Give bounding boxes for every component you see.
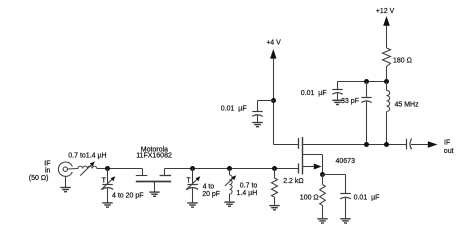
ground (inductor L2) xyxy=(224,202,234,206)
svg-text:T: T xyxy=(186,177,191,184)
node (junction dot at inductor L2) xyxy=(227,166,232,171)
svg-text:IF: IF xyxy=(444,139,450,146)
capacitor C6 33 pF xyxy=(361,82,371,145)
crystal filter FL1 Motorola 11FX16082 xyxy=(136,169,171,193)
svg-text:T: T xyxy=(102,177,107,184)
svg-text:11FX16082: 11FX16082 xyxy=(136,153,172,160)
trimmer capacitor C2 4 to 20 pF xyxy=(186,169,200,203)
+4 V supply arrow xyxy=(270,49,276,145)
label Motorola 11FX16082 xyxy=(136,147,172,160)
label 0.7 to1.4 uH xyxy=(68,153,106,160)
svg-text:0.7 to1.4 µH: 0.7 to1.4 µH xyxy=(68,153,106,160)
svg-text:45 MHz: 45 MHz xyxy=(395,102,420,109)
ground (trimmer C1) xyxy=(102,203,112,207)
ground (capacitor C5) xyxy=(332,100,342,104)
MOSFET Q1 40673 (dual-gate) xyxy=(299,137,323,175)
variable inductor L2 0.7 to 1.4 uH (shunt) xyxy=(225,169,236,202)
svg-text:180 Ω: 180 Ω xyxy=(393,57,412,64)
ground (capacitor C3) xyxy=(340,219,350,223)
svg-text:20 pF: 20 pF xyxy=(202,191,220,198)
svg-text:0.01 µF: 0.01 µF xyxy=(221,106,247,113)
inductor L3 45 MHz xyxy=(387,82,390,145)
+12 V supply arrow xyxy=(383,16,390,48)
node (junction dot at trimmer C2) xyxy=(190,166,195,171)
resistor R1 2.2 kohm xyxy=(272,169,278,206)
resistor R2 100 ohm xyxy=(320,175,326,219)
coax connector J1 (IF in) xyxy=(58,162,78,176)
svg-text:(50 Ω): (50 Ω) xyxy=(29,175,49,182)
svg-text:1.4 µH: 1.4 µH xyxy=(237,190,258,197)
wire +4V to gate 2 xyxy=(274,144,299,146)
ground (connector) xyxy=(60,177,70,192)
svg-text:4 to 20 pF: 4 to 20 pF xyxy=(112,192,144,199)
svg-text:in: in xyxy=(45,167,51,174)
node (junction dot 33pF bottom) xyxy=(364,142,369,147)
resistor R3 180 ohm xyxy=(383,48,391,82)
label 0.7 to / 1.4 uH xyxy=(237,183,258,198)
node (junction dot 33pF top) xyxy=(364,79,369,84)
svg-text:0.01 µF: 0.01 µF xyxy=(354,195,380,202)
capacitor C4 0.01 uF (+4V bypass) xyxy=(252,101,273,123)
ground (capacitor C4) xyxy=(252,123,262,127)
svg-text:100 Ω: 100 Ω xyxy=(300,195,319,202)
svg-text:2.2 kΩ: 2.2 kΩ xyxy=(283,178,303,185)
svg-text:40673: 40673 xyxy=(336,158,356,165)
svg-text:0.01 µF: 0.01 µF xyxy=(301,90,327,97)
svg-text:out: out xyxy=(444,148,454,155)
wire drain rail xyxy=(303,144,407,146)
svg-text:0.7 to: 0.7 to xyxy=(240,183,258,190)
label IF out xyxy=(444,139,454,155)
node (source junction dot) xyxy=(320,172,325,177)
ground (filter) xyxy=(149,192,159,196)
wire source to bypass capacitor C3 xyxy=(323,174,346,176)
variable inductor L1 0.7 to 1.4 uH (series) xyxy=(78,161,97,175)
svg-text:33 pF: 33 pF xyxy=(341,98,359,105)
svg-text:4 to: 4 to xyxy=(203,184,215,191)
svg-text:+4 V: +4 V xyxy=(266,39,281,46)
node (junction dot at trimmer C1) xyxy=(105,166,110,171)
svg-text:+12 V: +12 V xyxy=(376,8,395,15)
ground (resistor R1) xyxy=(269,206,279,210)
ground (resistor R2) xyxy=(317,219,327,223)
capacitor C5 0.01 uF (supply bypass) xyxy=(332,82,342,101)
ground (trimmer C2) xyxy=(187,203,197,207)
svg-text:IF: IF xyxy=(44,160,50,167)
IF out arrow xyxy=(428,141,438,147)
node (junction dot coil bottom) xyxy=(384,142,389,147)
node (junction dot 180 ohm bottom) xyxy=(384,79,389,84)
wire filter output to gate 1 xyxy=(165,168,299,170)
wire supply rail (top) xyxy=(338,81,387,83)
node (junction dot at resistor R1) xyxy=(272,166,277,171)
capacitor C3 0.01 uF (source bypass) xyxy=(340,175,351,219)
node (junction dot on +4V line) xyxy=(271,98,276,103)
label IF in (50 ohm) xyxy=(29,160,51,182)
trimmer capacitor C1 4 to 20 pF xyxy=(101,169,115,203)
label 4 to / 20 pF xyxy=(202,184,220,199)
wire connector to filter input, main line xyxy=(97,168,143,170)
capacitor C7 (output coupling) xyxy=(407,139,430,150)
